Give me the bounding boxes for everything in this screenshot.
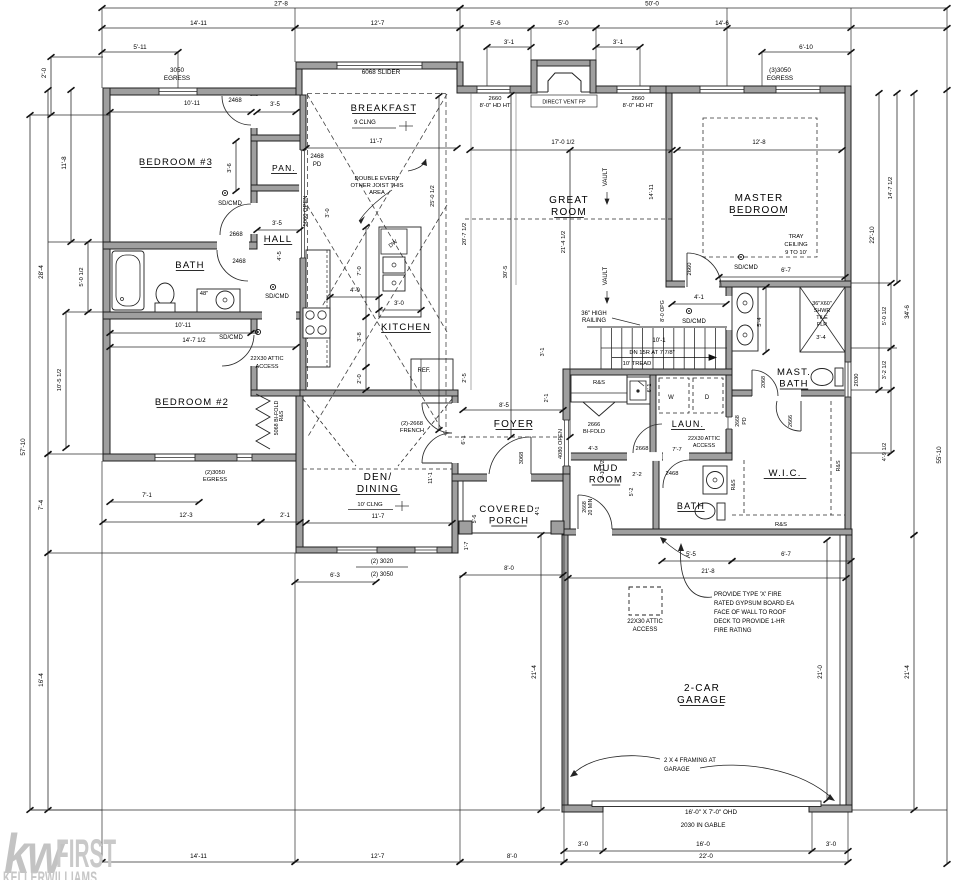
svg-text:50'-0: 50'-0 [645,1,659,8]
svg-text:DINING: DINING [357,484,399,495]
svg-text:W.I.C.: W.I.C. [768,468,801,479]
svg-text:SD/CMD: SD/CMD [218,201,242,207]
great room vault dashes [465,218,672,220]
svg-text:5060 OPEN: 5060 OPEN [303,196,309,227]
svg-text:10'-1: 10'-1 [652,338,666,344]
svg-text:6'-1: 6'-1 [647,384,653,393]
wall step breakfast left [296,62,302,95]
svg-text:8'-0: 8'-0 [507,853,518,860]
kitchen west wall [300,95,306,396]
svg-text:VAULT: VAULT [603,266,609,285]
svg-text:22'-0: 22'-0 [699,853,713,860]
svg-text:DECK TO PROVIDE 1-HR: DECK TO PROVIDE 1-HR [714,619,785,625]
svg-text:MUD: MUD [593,463,618,474]
svg-text:21'-4: 21'-4 [904,665,911,679]
svg-text:OTHER JOIST THIS: OTHER JOIST THIS [351,183,404,189]
dim extension lines top [101,8,103,88]
svg-text:2668: 2668 [229,232,243,238]
svg-text:ACCESS: ACCESS [255,364,278,370]
watermark kw first keller williams [3,823,116,880]
master bedroom bottom wall [666,281,851,287]
den right / porch west wall [452,396,458,553]
svg-text:3'-4: 3'-4 [816,335,826,341]
right exterior wall [845,86,851,535]
svg-text:11'-1: 11'-1 [428,472,434,483]
svg-text:16'-0" X 7'-0" OHD: 16'-0" X 7'-0" OHD [685,809,737,816]
svg-text:BATH: BATH [175,260,204,271]
garage left wall [562,535,568,811]
svg-text:(2)-2668: (2)-2668 [401,421,423,427]
svg-text:10'-5 1/2: 10'-5 1/2 [57,369,63,391]
svg-text:3'-1: 3'-1 [540,348,546,357]
svg-text:2666: 2666 [588,422,600,428]
top dims [102,7,460,9]
master bedroom top wall [666,86,851,93]
svg-text:36" HIGH: 36" HIGH [581,311,606,317]
window 2660 great room left [477,85,510,93]
den ceiling dashes [303,399,356,466]
svg-text:FLR: FLR [817,322,827,328]
svg-text:34'-6: 34'-6 [904,305,911,319]
wall step breakfast right [457,62,463,93]
great room / master wall [666,93,672,287]
door arc hall/bed3 [220,204,251,235]
svg-text:EGRESS: EGRESS [767,75,793,82]
svg-text:MAST.: MAST. [777,367,811,378]
svg-text:57'-10: 57'-10 [20,438,27,456]
svg-text:5'-4: 5'-4 [757,316,763,326]
windows (2)3050 bedroom2 [155,453,195,461]
bath2 west wall [653,460,659,529]
svg-text:BEDROOM #2: BEDROOM #2 [155,397,229,408]
svg-text:8'-0 OPG: 8'-0 OPG [660,300,666,321]
svg-text:GARAGE: GARAGE [677,695,727,706]
svg-text:22X30 ATTIC: 22X30 ATTIC [627,619,663,625]
covered porch slab [463,532,563,534]
svg-text:MASTER: MASTER [735,193,784,204]
window 3050 egress bedroom3 [159,87,197,95]
svg-text:EGRESS: EGRESS [203,477,227,483]
svg-text:2-CAR: 2-CAR [684,683,720,694]
svg-text:FIRE RATING: FIRE RATING [714,628,752,634]
wic shelf dashes [732,514,845,516]
svg-text:3068: 3068 [519,452,525,464]
svg-text:20 MIN: 20 MIN [588,498,594,515]
svg-text:12'-8: 12'-8 [752,140,766,146]
svg-text:9 TO 10': 9 TO 10' [785,250,807,256]
svg-text:30'-5: 30'-5 [503,266,509,279]
bath/bedroom2 wall [103,312,306,319]
svg-text:6'-7: 6'-7 [781,552,791,558]
svg-text:BEDROOM: BEDROOM [729,205,789,216]
svg-text:2030: 2030 [854,374,860,387]
svg-text:4'-1: 4'-1 [694,295,704,301]
svg-text:5'-2: 5'-2 [629,488,635,497]
svg-text:14'-7 1/2: 14'-7 1/2 [182,338,206,344]
svg-text:14'-11: 14'-11 [190,853,207,860]
svg-text:1'-7: 1'-7 [464,542,470,551]
left exterior wall [103,88,110,461]
svg-text:2660: 2660 [489,96,502,102]
svg-text:SD/CMD: SD/CMD [734,265,758,271]
door arc master bath [752,370,778,396]
svg-text:2'-0: 2'-0 [357,374,363,384]
svg-text:2'-1: 2'-1 [280,513,290,519]
svg-text:LAUN.: LAUN. [672,419,705,429]
svg-text:21'-8: 21'-8 [701,569,715,575]
svg-text:(2) 3020: (2) 3020 [371,559,394,565]
bedroom2 bottom wall [103,454,302,461]
svg-text:2030 IN GABLE: 2030 IN GABLE [681,822,726,829]
svg-text:AREA: AREA [369,190,385,196]
svg-text:7'-1: 7'-1 [142,493,152,499]
master bath west wall [726,287,732,460]
svg-text:2'-5: 2'-5 [462,373,468,383]
svg-text:KITCHEN: KITCHEN [381,322,431,333]
svg-text:VAULT: VAULT [603,167,609,186]
svg-text:R&S: R&S [593,380,605,386]
svg-text:2666: 2666 [788,415,794,427]
door arc wic [776,401,801,431]
svg-text:21'-4: 21'-4 [531,665,538,679]
bedroom3 east wall [251,95,257,242]
door arc master bedroom [687,253,721,287]
svg-text:4080 OPEN: 4080 OPEN [558,429,564,459]
svg-text:3'-5: 3'-5 [270,102,280,108]
svg-text:6'-10: 6'-10 [799,44,813,51]
svg-text:5'-0: 5'-0 [558,20,569,27]
bottom dims [30,809,560,811]
bath2 vanity [703,466,727,494]
garage bottom wall right [809,805,852,812]
master bath vanity [732,287,758,351]
svg-text:16'-4: 16'-4 [38,673,45,687]
svg-text:14'-11: 14'-11 [190,20,207,27]
svg-text:EGRESS: EGRESS [164,75,190,82]
svg-text:6'-1: 6'-1 [461,435,467,444]
svg-text:3'-0: 3'-0 [394,301,404,307]
svg-text:17'-0 1/2: 17'-0 1/2 [551,140,575,146]
svg-text:9 CLNG: 9 CLNG [354,120,376,126]
svg-text:SD/CMD: SD/CMD [682,319,706,325]
svg-text:4'-0: 4'-0 [350,288,360,294]
den left wall [296,390,303,553]
svg-text:2'-0: 2'-0 [41,67,48,78]
stair bottom wall [563,369,732,375]
svg-text:R&S: R&S [836,460,842,471]
svg-text:8'-0" HD HT: 8'-0" HD HT [480,103,511,109]
svg-text:28'-4: 28'-4 [38,265,45,279]
svg-text:COVERED.: COVERED. [479,504,538,515]
svg-text:PORCH: PORCH [489,516,529,527]
svg-text:22X30 ATTIC: 22X30 ATTIC [250,356,283,362]
svg-text:10'-11: 10'-11 [184,101,201,107]
door openings [250,96,258,128]
svg-text:2668: 2668 [735,415,741,427]
svg-text:7'-4: 7'-4 [38,499,45,510]
svg-text:10'-11: 10'-11 [175,323,192,329]
windows (3)3050 master bedroom [700,85,744,93]
bath1 toilet [156,283,174,305]
svg-text:2468: 2468 [232,259,246,265]
mudroom/laundry south wall [570,453,732,460]
svg-text:DN 15R AT 7 7/8": DN 15R AT 7 7/8" [629,350,674,356]
kitchen counter [306,250,330,367]
svg-text:DIRECT VENT FP: DIRECT VENT FP [542,100,586,106]
bedroom2 bifold zigzag [256,394,270,449]
svg-text:21'-0: 21'-0 [817,665,824,679]
hall west wall lower [251,319,257,396]
french doors den [422,403,452,433]
svg-text:(2)3050: (2)3050 [205,470,225,476]
bath1 tub [112,251,144,310]
joist X dashed kitchen [307,205,447,438]
top wall left wing [103,88,302,95]
svg-text:6'-7: 6'-7 [781,268,791,274]
svg-text:D: D [705,395,710,401]
pantry top wall [251,135,302,141]
svg-text:W: W [668,395,674,401]
svg-text:GREAT: GREAT [549,195,589,206]
svg-text:20'-7 1/2: 20'-7 1/2 [462,223,468,245]
svg-text:FOYER: FOYER [494,419,534,430]
foyer closet [571,375,627,402]
svg-text:5'-0 1/2: 5'-0 1/2 [79,267,85,286]
svg-text:DEN/: DEN/ [364,472,393,483]
svg-text:RAILING: RAILING [582,318,606,324]
svg-text:3'-1: 3'-1 [504,39,515,46]
washer dryer [659,378,689,413]
svg-text:2468: 2468 [228,98,242,104]
svg-text:SHWR: SHWR [814,308,831,314]
svg-text:48": 48" [200,291,209,297]
garage inner wall line [839,535,841,805]
svg-text:3'-0: 3'-0 [578,841,589,848]
door arc bedroom3 [222,96,251,125]
svg-text:3050: 3050 [170,67,185,74]
svg-text:PAN.: PAN. [272,163,296,173]
svg-text:8'-0" HD HT: 8'-0" HD HT [623,103,654,109]
svg-text:5'-6: 5'-6 [490,20,501,27]
door arc bedroom2 [222,335,254,366]
kitchen range [303,308,330,338]
svg-text:4'-5: 4'-5 [277,251,283,261]
svg-text:3'-6: 3'-6 [227,163,233,173]
svg-text:ACCESS: ACCESS [693,443,716,449]
svg-text:11'-7: 11'-7 [372,514,385,520]
svg-text:6'-3: 6'-3 [330,573,340,579]
tray ceiling dashed [703,118,817,257]
svg-text:(2) 3050: (2) 3050 [371,572,394,578]
svg-text:RATED GYPSUM BOARD EA: RATED GYPSUM BOARD EA [714,601,794,607]
svg-text:ROOM: ROOM [589,475,623,486]
svg-text:4'-3: 4'-3 [588,446,598,452]
svg-text:CEILING: CEILING [784,242,808,248]
door arc laundry [633,424,662,453]
window 6068 slider breakfast [337,61,422,69]
svg-text:36"X60": 36"X60" [812,301,832,307]
garage right wall [846,535,852,811]
svg-text:5068 BI-FOLD: 5068 BI-FOLD [274,401,280,436]
svg-text:BATH: BATH [677,501,705,511]
bedroom3/bath wall [103,242,257,249]
svg-text:22X30 ATTIC: 22X30 ATTIC [688,436,720,442]
svg-text:4'-9 1/2: 4'-9 1/2 [882,443,888,461]
svg-text:5'-0 1/2: 5'-0 1/2 [882,307,888,325]
svg-text:FACE OF WALL TO ROOF: FACE OF WALL TO ROOF [714,610,786,616]
svg-text:3'-2 1/2: 3'-2 1/2 [882,361,888,379]
house bottom wall / garage top [563,529,852,535]
svg-text:2'-2: 2'-2 [632,472,642,478]
breakfast top wall [296,62,463,69]
svg-text:12'-7: 12'-7 [371,853,385,860]
svg-text:REF.: REF. [417,368,430,374]
svg-text:2468: 2468 [666,471,679,477]
kitchen island sink dw [379,227,421,317]
svg-text:5'-6: 5'-6 [472,515,478,524]
fireplace direct vent [531,60,596,66]
bath2 toilet [695,503,715,519]
master toilet [811,369,833,386]
svg-text:3'-1: 3'-1 [613,39,624,46]
svg-text:2668: 2668 [636,446,649,452]
svg-text:2660: 2660 [632,96,645,102]
window 2660 great room right [617,85,650,93]
svg-text:14'-7 1/2: 14'-7 1/2 [888,177,894,199]
svg-text:SD/CMD: SD/CMD [265,294,289,300]
svg-text:55'-10: 55'-10 [936,446,943,464]
master shower [800,287,845,352]
great room top wall right [590,86,672,93]
garage door opening [592,801,821,807]
laundry sink [627,377,650,404]
svg-text:2'-1: 2'-1 [544,394,550,403]
svg-text:BEDROOM #3: BEDROOM #3 [139,157,213,168]
foyer front wall [452,474,570,481]
foyer/mud wall [563,369,570,474]
stairs [587,326,727,328]
great room top wall left [457,86,537,93]
svg-text:16'-0: 16'-0 [696,841,710,848]
svg-text:GARAGE: GARAGE [664,767,690,773]
svg-text:8'-0: 8'-0 [504,566,514,572]
door arc front door [489,437,531,474]
svg-text:ROOM: ROOM [551,207,587,218]
door arc mud/garage [578,495,612,529]
svg-text:7'-0: 7'-0 [357,266,363,276]
laundry west wall [650,375,656,453]
garage bottom wall left [562,805,603,812]
svg-text:11'-7: 11'-7 [370,139,383,145]
svg-text:R&S: R&S [731,479,737,490]
svg-text:5'-11: 5'-11 [133,44,147,51]
svg-text:27'-8: 27'-8 [274,1,288,8]
svg-text:12'-3: 12'-3 [179,513,193,519]
svg-text:PD: PD [313,162,322,168]
great room extension lines [470,93,472,390]
svg-text:R&S: R&S [775,522,787,528]
svg-text:TILE: TILE [816,315,828,321]
svg-text:2 X 4 FRAMING AT: 2 X 4 FRAMING AT [664,758,716,764]
svg-text:DOUBLE EVERY: DOUBLE EVERY [355,176,400,182]
master bath south wall [732,390,851,396]
porch east wall [563,453,570,535]
svg-text:3'-8: 3'-8 [357,332,363,342]
kitchen bottom wall [300,390,458,396]
svg-text:2468: 2468 [310,154,324,160]
svg-text:14'-6: 14'-6 [715,20,729,27]
svg-text:SD/CMD: SD/CMD [219,335,243,341]
svg-text:2068: 2068 [761,376,767,388]
svg-text:10' CLNG: 10' CLNG [357,502,383,508]
svg-text:11'-8: 11'-8 [61,156,68,170]
svg-text:ACCESS: ACCESS [633,627,658,633]
windows den [337,546,377,553]
svg-text:3'-0: 3'-0 [826,841,837,848]
svg-text:HALL: HALL [264,234,293,245]
garage attic access box [629,587,662,615]
svg-text:TRAY: TRAY [788,234,803,240]
door arc bath1 [217,250,248,281]
svg-text:FRENCH: FRENCH [400,428,424,434]
svg-text:7'-7: 7'-7 [672,447,682,453]
joist X dashed breakfast [307,94,447,332]
window 2030 master bath [844,362,851,397]
svg-text:3'-5: 3'-5 [272,221,282,227]
hall bottom wall [251,390,306,396]
joist area dashed perimeter [307,93,446,95]
pantry bottom wall [251,185,302,191]
bath1 vanity [197,289,240,312]
svg-text:(3)3050: (3)3050 [769,67,791,74]
right dims [878,93,880,390]
svg-text:PD: PD [742,417,748,424]
svg-text:BI-FOLD: BI-FOLD [583,429,605,435]
fridge [411,359,453,390]
svg-text:21'-4 1/2: 21'-4 1/2 [561,231,567,253]
svg-text:BREAKFAST: BREAKFAST [351,103,418,114]
svg-text:3'-0: 3'-0 [325,208,331,217]
left dims [30,114,110,116]
svg-text:6068 SLIDER: 6068 SLIDER [362,69,401,76]
svg-text:PROVIDE TYPE 'X' FIRE: PROVIDE TYPE 'X' FIRE [714,592,782,598]
svg-text:25'-0 1/2: 25'-0 1/2 [430,185,436,207]
svg-text:14'-11: 14'-11 [649,184,655,200]
svg-text:22'-10: 22'-10 [869,226,876,244]
svg-text:10' TREAD: 10' TREAD [623,361,652,367]
den bottom wall [296,547,458,553]
svg-text:BATH: BATH [779,379,808,390]
svg-text:12'-7: 12'-7 [371,20,385,27]
svg-text:8'-5: 8'-5 [499,403,509,409]
svg-text:KELLERWILLIAMS.: KELLERWILLIAMS. [3,867,100,880]
door arc bath2 [663,460,689,488]
svg-text:2660: 2660 [687,263,693,276]
